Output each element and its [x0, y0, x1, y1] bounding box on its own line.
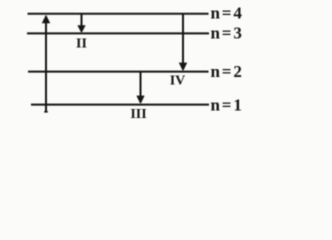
transition I up arrow wire	[45, 21, 47, 112]
svg-text:n = 4: n = 4	[211, 4, 243, 23]
energy level n=2 line	[28, 71, 209, 73]
transition II arrowhead	[77, 25, 85, 33]
svg-text:III: III	[130, 107, 146, 122]
transition III down arrow wire	[140, 72, 142, 97]
energy level n=3 line	[27, 32, 209, 34]
transition II down arrow wire	[81, 14, 83, 27]
svg-text:IV: IV	[170, 74, 186, 89]
energy level n=1 line	[31, 104, 209, 106]
svg-text:n = 1: n = 1	[211, 95, 242, 114]
energy level n=4 line	[28, 13, 209, 15]
svg-text:n = 3: n = 3	[211, 24, 242, 43]
transition III arrowhead	[136, 96, 144, 105]
svg-text:II: II	[76, 36, 87, 51]
transition I tail foot	[44, 111, 48, 113]
transition IV down arrow wire	[182, 14, 184, 64]
transition IV arrowhead	[179, 63, 187, 72]
transition I arrowhead	[42, 15, 50, 24]
svg-text:n = 2: n = 2	[211, 62, 242, 81]
